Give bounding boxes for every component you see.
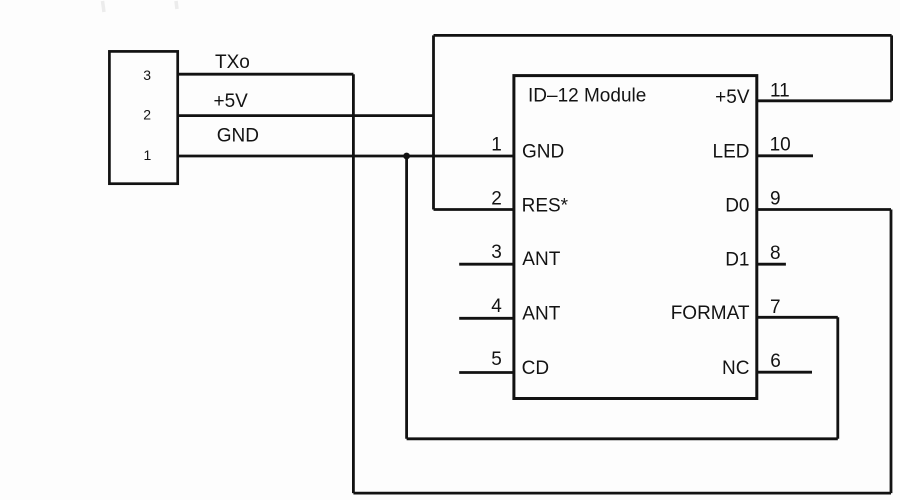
svg-text:TXo: TXo [215,52,250,73]
svg-text:ANT: ANT [522,304,560,325]
svg-text:8: 8 [770,243,781,264]
wire GND to FORMAT horizontal [407,437,838,440]
wire pin 2 RES* [434,208,514,211]
wire pin 8 D1 stub [757,263,786,266]
wire pin 6 NC stub [757,371,812,374]
svg-text:1: 1 [144,147,152,163]
wire pin 4 ANT stub [459,317,514,320]
svg-text:2: 2 [491,189,502,210]
svg-text:ANT: ANT [522,249,560,270]
wire TXo from J1 pin3 [178,73,354,76]
svg-text:2: 2 [143,107,151,123]
wire FORMAT vertical [836,317,839,439]
svg-text:ID–12 Module: ID–12 Module [528,86,646,107]
svg-text:3: 3 [143,67,151,83]
wire +5V top horizontal [434,34,892,37]
wire TXo/D0 bottom horizontal [353,492,891,495]
svg-text:D0: D0 [725,195,749,216]
svg-text:CD: CD [522,358,549,379]
wire +5V left vertical [432,35,435,209]
wire pin 3 ANT stub [459,263,514,266]
wire pin 10 LED stub [757,154,813,157]
svg-text:NC: NC [722,358,749,379]
svg-text:11: 11 [770,81,790,102]
wire D0 right vertical [890,210,893,494]
wire TXo vertical down [352,74,355,493]
scan artifact smudge top-left [103,1,178,12]
junction node GND [403,153,410,160]
svg-text:LED: LED [713,141,750,162]
svg-text:9: 9 [770,189,781,210]
svg-text:6: 6 [770,351,781,372]
svg-text:FORMAT: FORMAT [671,303,750,324]
connector J1 (3-pin) [109,51,177,183]
IC U1 ID-12 Module body [514,76,757,399]
wire GND vertical from junction [405,156,408,439]
wire pin 11 +5V [757,99,892,102]
svg-text:3: 3 [491,242,502,263]
svg-text:5: 5 [491,349,502,370]
svg-text:1: 1 [491,135,502,156]
svg-text:GND: GND [217,125,259,146]
svg-text:+5V: +5V [214,91,249,112]
wire pin 5 CD stub [459,371,514,374]
svg-text:7: 7 [770,297,781,318]
wire pin 9 D0 [757,208,891,211]
wire +5V from J1 pin2 [178,114,434,117]
wire GND from J1 pin1 to module pin 1 [178,155,514,158]
svg-text:10: 10 [770,135,791,156]
svg-text:D1: D1 [725,249,749,270]
svg-text:GND: GND [522,141,564,162]
svg-text:RES*: RES* [522,195,569,216]
wire pin 7 FORMAT [757,316,838,319]
svg-text:+5V: +5V [715,87,750,108]
svg-text:4: 4 [491,296,502,317]
wire +5V right vertical [890,35,893,100]
